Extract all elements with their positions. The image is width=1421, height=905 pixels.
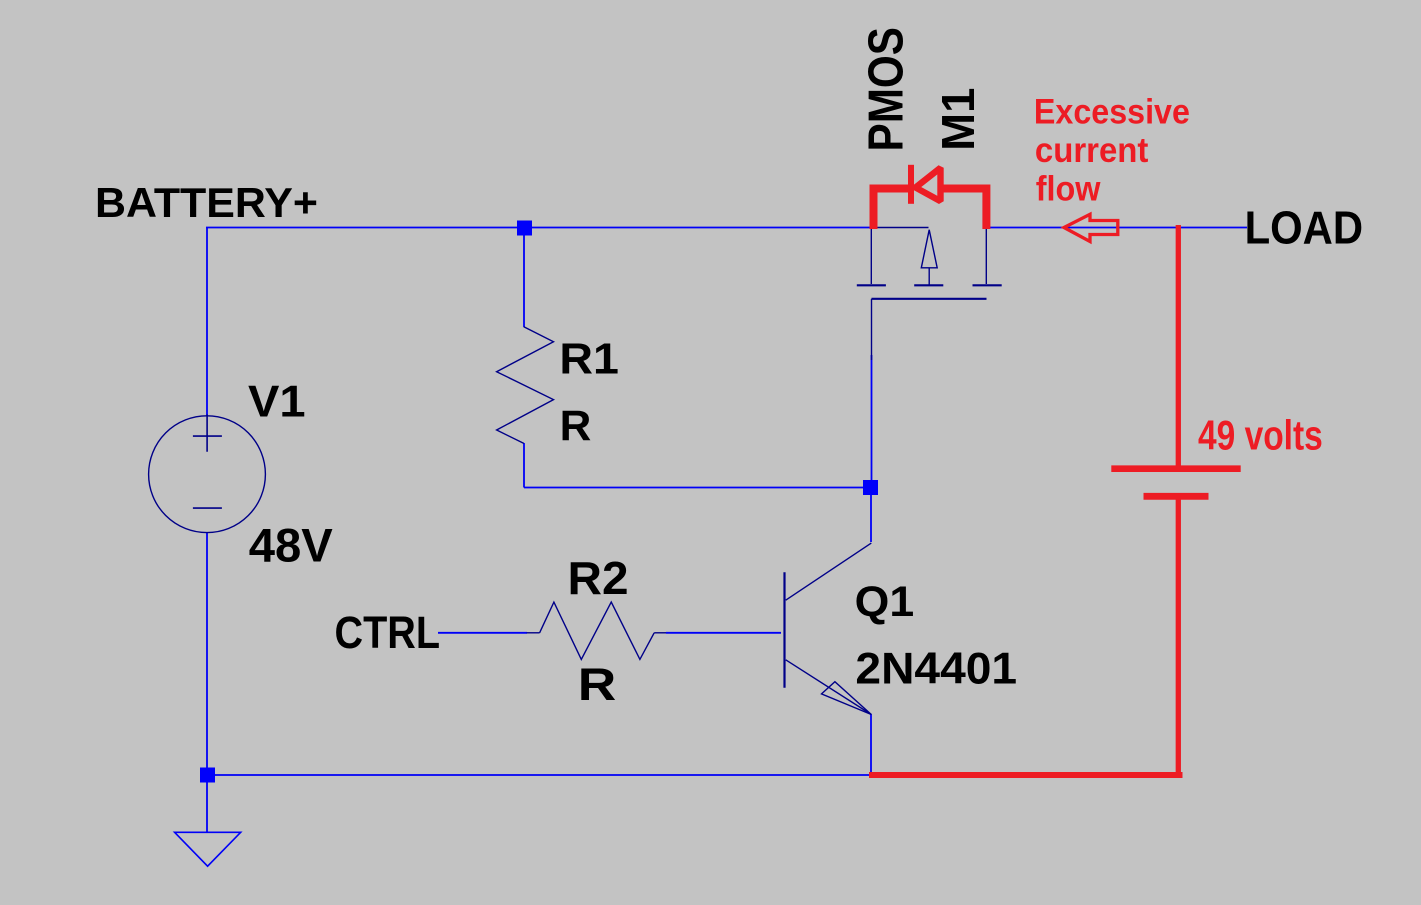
red current flow arrow [1064, 214, 1118, 241]
wire R1 bottom horizontal to gate node [524, 487, 871, 489]
svg-text:M1: M1 [932, 88, 984, 151]
node C junction square [200, 768, 215, 783]
wire M1 drain to LOAD [986, 227, 1247, 229]
svg-text:current: current [1035, 131, 1149, 170]
MOSFET M1 channel bar middle [914, 284, 943, 286]
wire node A to R1 top [523, 227, 525, 327]
wire ground stub [206, 775, 208, 832]
MOSFET M1 drain vertical [985, 228, 987, 284]
MOSFET M1 channel bar right [973, 284, 1002, 286]
wire Q1 emitter down [870, 714, 872, 775]
svg-text:Q1: Q1 [855, 578, 915, 626]
resistor R2 zigzag [527, 632, 540, 634]
V1 plus sign [193, 415, 222, 452]
wire CTRL to R2 [438, 632, 527, 634]
svg-text:2N4401: 2N4401 [855, 644, 1017, 694]
red load capacitor bottom plate [1144, 493, 1209, 500]
wire R1 bottom vertical [523, 443, 525, 488]
red load top stub [1176, 225, 1181, 466]
red bottom return wire [869, 772, 1183, 778]
svg-text:BATTERY+: BATTERY+ [95, 179, 318, 226]
transistor Q1 base bar [783, 572, 785, 688]
voltage source V1 circle [149, 416, 266, 533]
MOSFET M1 source-to-body line [871, 227, 929, 229]
svg-text:Excessive: Excessive [1034, 93, 1190, 132]
node B junction square [863, 480, 878, 495]
wire top horizontal BATTERY+ to M1 source [206, 227, 872, 229]
red load bottom lead [1176, 496, 1181, 775]
wire BATTERY+ top vertical (V1 plus lead) [206, 227, 208, 416]
red body diode triangle [916, 168, 941, 201]
svg-text:R: R [560, 402, 592, 449]
red load capacitor top plate [1111, 465, 1240, 472]
MOSFET M1 source vertical [870, 228, 872, 284]
wire node B to Q1 collector [870, 487, 872, 542]
transistor Q1 collector diagonal [786, 543, 872, 600]
wire V1 minus lead to bottom node [206, 533, 208, 775]
red body diode right lead [941, 189, 986, 230]
svg-text:CTRL: CTRL [335, 607, 441, 658]
wire bottom horizontal ground bus [207, 774, 869, 776]
red body diode left lead [874, 189, 909, 230]
svg-text:R: R [578, 659, 617, 710]
wire M1 gate to node B [871, 355, 873, 488]
MOSFET M1 channel bar left [857, 284, 886, 286]
MOSFET M1 body arrow stem [928, 268, 930, 286]
transistor Q1 emitter diagonal [786, 660, 872, 715]
svg-text:48V: 48V [249, 520, 334, 573]
MOSFET M1 body arrow triangle [921, 230, 937, 268]
ground symbol [175, 832, 241, 866]
svg-text:49 volts: 49 volts [1198, 413, 1323, 459]
V1 minus sign [193, 507, 222, 509]
wire R2 to Q1 base [666, 632, 781, 634]
red body diode cathode bar [908, 165, 914, 204]
MOSFET M1 gate plate [872, 298, 987, 300]
svg-text:V1: V1 [248, 377, 306, 427]
MOSFET M1 gate stub [871, 299, 873, 360]
svg-text:R2: R2 [568, 552, 629, 604]
svg-text:PMOS: PMOS [858, 27, 913, 152]
transistor Q1 emitter arrowhead [822, 682, 872, 715]
node A junction square [517, 221, 532, 236]
svg-text:flow: flow [1036, 169, 1102, 208]
svg-text:LOAD: LOAD [1245, 201, 1364, 253]
svg-text:R1: R1 [559, 334, 619, 383]
resistor R1 zigzag [497, 327, 554, 444]
